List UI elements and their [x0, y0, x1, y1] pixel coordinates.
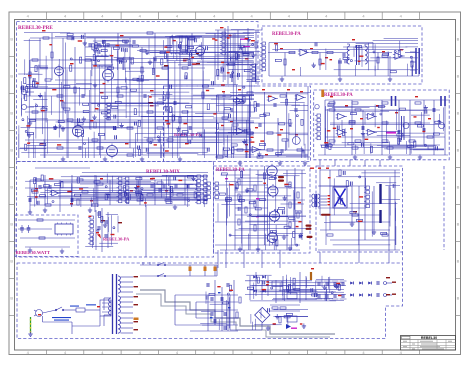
- svg-text:B: B: [457, 185, 460, 190]
- svg-text:B: B: [10, 37, 13, 42]
- svg-text:REBEL30: REBEL30: [421, 336, 437, 340]
- svg-text:B: B: [10, 185, 13, 190]
- svg-text:B: B: [457, 222, 460, 227]
- svg-text:REBEL30-PRE: REBEL30-PRE: [18, 25, 53, 31]
- svg-text:B: B: [457, 259, 460, 264]
- svg-text:B: B: [10, 222, 13, 227]
- svg-text:B: B: [10, 296, 13, 301]
- svg-text:B: B: [10, 111, 13, 116]
- svg-text:B: B: [10, 259, 13, 264]
- svg-text:B: B: [457, 148, 460, 153]
- svg-text:B: B: [457, 74, 460, 79]
- svg-text:B: B: [457, 37, 460, 42]
- svg-text:B: B: [457, 111, 460, 116]
- svg-text:B: B: [10, 74, 13, 79]
- svg-text:REBEL30-PA: REBEL30-PA: [324, 93, 353, 98]
- svg-text:REBEL30-PA: REBEL30-PA: [216, 168, 245, 173]
- svg-text:REBEL30.WATT: REBEL30.WATT: [16, 250, 51, 255]
- svg-text:B: B: [457, 296, 460, 301]
- svg-text:B: B: [10, 148, 13, 153]
- svg-text:REBEL30-PA: REBEL30-PA: [272, 32, 301, 37]
